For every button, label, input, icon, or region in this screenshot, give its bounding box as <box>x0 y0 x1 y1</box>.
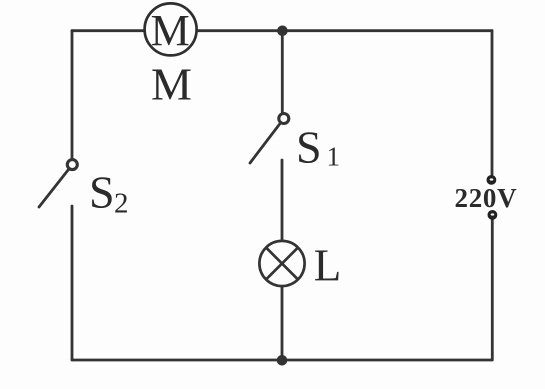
lamp L <box>259 241 304 286</box>
wire top-middle <box>196 29 282 32</box>
node junction top <box>277 26 288 37</box>
svg-text:M: M <box>151 6 190 55</box>
wire right lower <box>491 219 494 360</box>
wire left upper <box>71 31 74 160</box>
svg-text:2: 2 <box>114 188 129 220</box>
wire right upper <box>491 31 494 176</box>
wire top-right <box>282 29 492 32</box>
motor M1 <box>145 3 197 55</box>
wire top-left <box>72 29 145 32</box>
node junction bottom <box>277 355 288 366</box>
wire bottom-right <box>282 359 492 362</box>
svg-text:L: L <box>314 240 342 290</box>
svg-text:220V: 220V <box>455 183 518 213</box>
wire branch bottom <box>281 287 284 361</box>
terminal upper <box>487 175 497 185</box>
wire branch middle <box>281 160 284 241</box>
svg-text:S: S <box>296 122 322 173</box>
svg-text:S: S <box>89 167 115 218</box>
wire left lower <box>71 206 74 360</box>
switch S1 <box>250 114 289 164</box>
terminal lower <box>488 210 498 220</box>
switch S2 <box>39 160 77 207</box>
svg-text:1: 1 <box>327 142 341 172</box>
wire bottom-left <box>72 359 282 362</box>
wire branch top <box>281 31 284 113</box>
svg-text:M: M <box>151 58 192 109</box>
